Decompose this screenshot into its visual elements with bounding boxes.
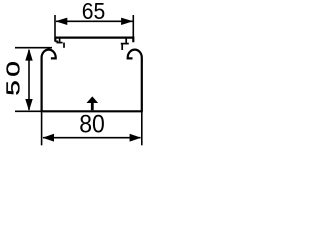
snap-direction arrow on base <box>87 96 99 110</box>
cover clip left <box>55 38 64 48</box>
extension line left of 80 dim <box>41 112 43 145</box>
dimension line 80 <box>43 137 141 139</box>
extension line right of 80 dim <box>141 112 143 145</box>
extension line top of 50 dim <box>15 47 52 49</box>
arrowhead left of 80 dim <box>43 134 55 142</box>
arrowhead right of 65 dim <box>121 18 133 25</box>
trunking body: walls, bottom, top curls with lips <box>42 50 142 112</box>
arrowhead left of 65 dim <box>55 18 67 25</box>
arrowhead top of 50 dim <box>25 49 32 61</box>
trunking cover <box>55 38 133 43</box>
extension line left of 65 dim <box>54 15 56 37</box>
svg-text:50: 50 <box>4 58 24 96</box>
dimension line 65 <box>56 20 132 22</box>
svg-text:80: 80 <box>79 111 105 139</box>
extension line bottom of 50 dim <box>15 110 42 112</box>
dimension line 50 <box>28 50 30 110</box>
arrowhead right of 80 dim <box>130 134 142 142</box>
arrowhead bottom of 50 dim <box>25 99 32 111</box>
extension line right of 65 dim <box>132 15 134 37</box>
cover clip right <box>121 38 129 50</box>
